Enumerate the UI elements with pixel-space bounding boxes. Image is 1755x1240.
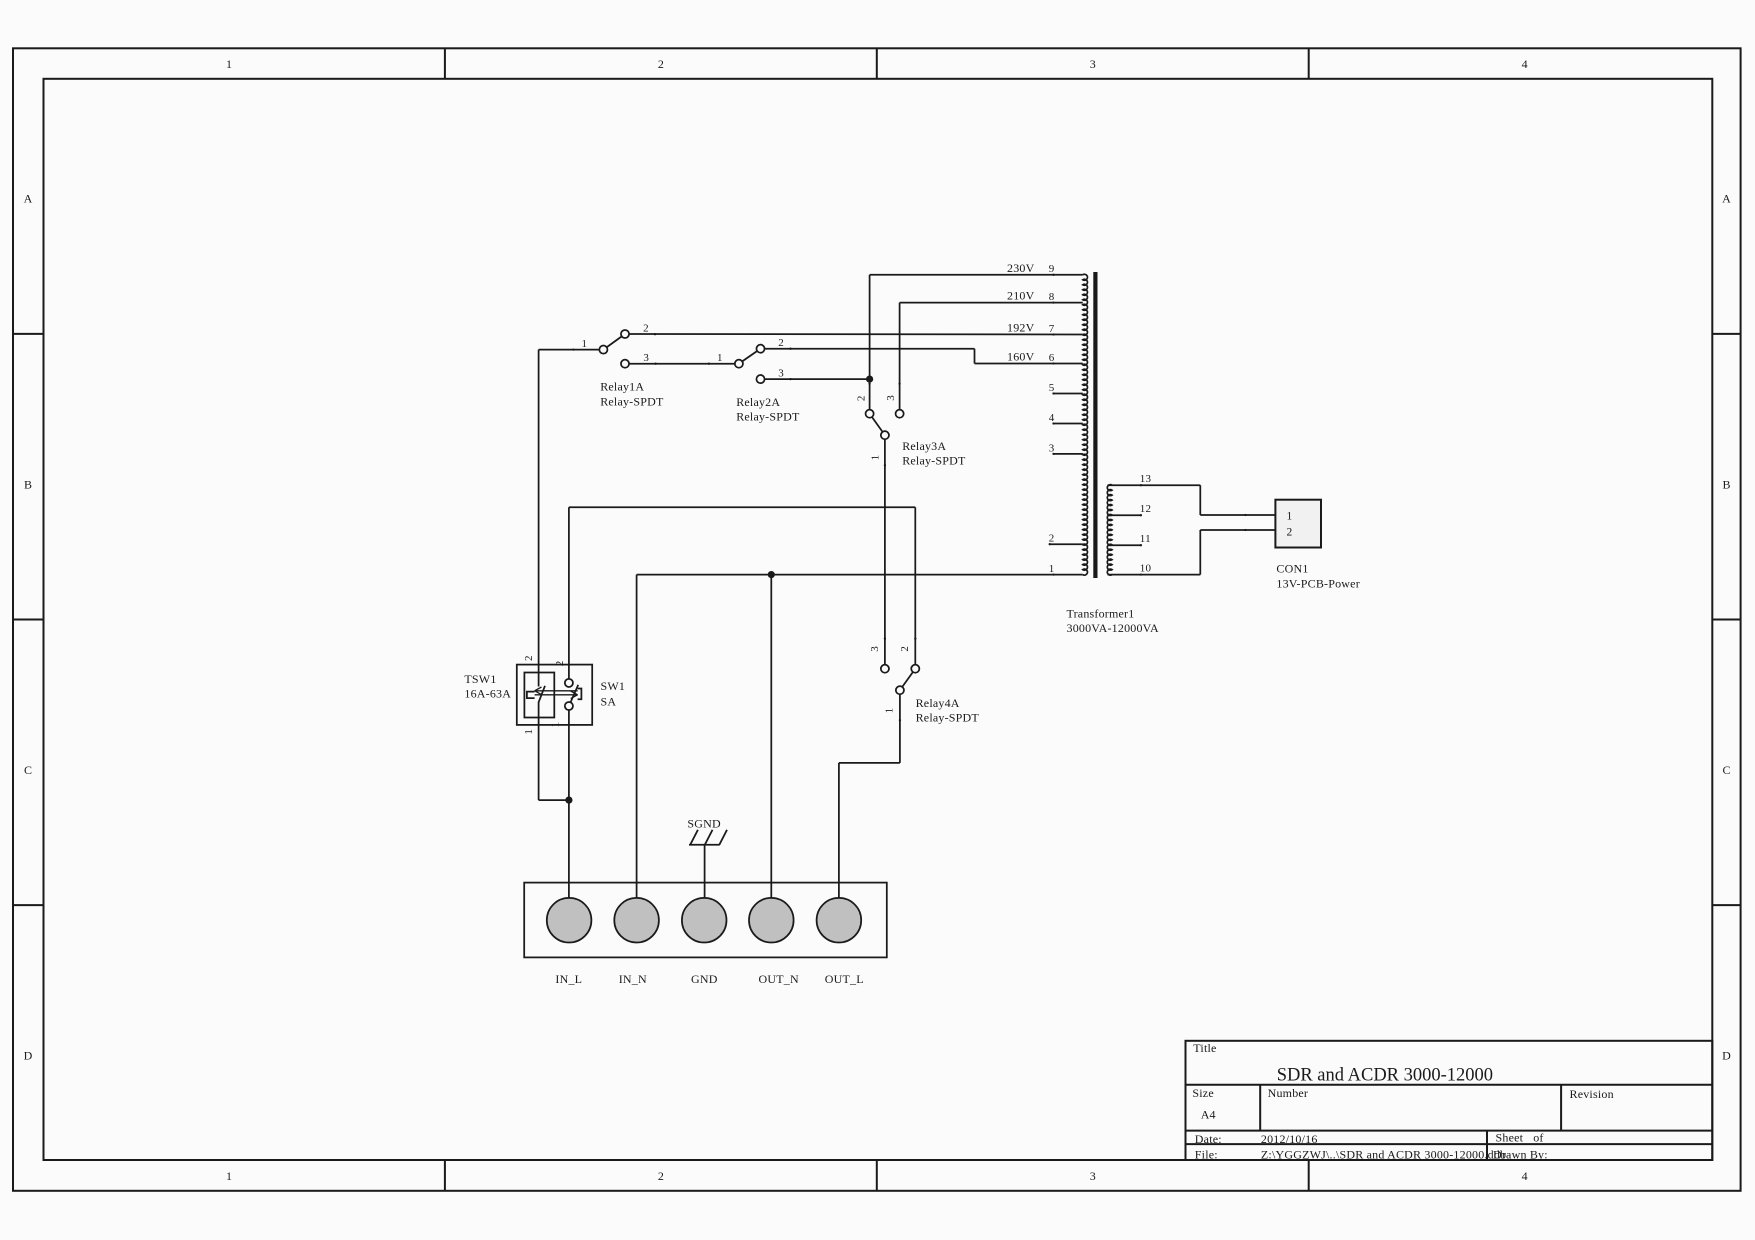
svg-text:Relay-SPDT: Relay-SPDT [916,711,980,725]
svg-text:2: 2 [778,337,784,349]
svg-text:D: D [1722,1049,1731,1063]
svg-text:4: 4 [1522,57,1528,71]
svg-text:OUT_L: OUT_L [825,972,864,986]
svg-text:C: C [24,763,32,777]
svg-text:Sheet: Sheet [1496,1131,1524,1145]
svg-text:3: 3 [869,646,881,652]
svg-text:2: 2 [658,57,664,71]
svg-text:Relay1A: Relay1A [600,380,644,394]
svg-text:1: 1 [226,1169,232,1183]
svg-text:2: 2 [1287,526,1293,538]
svg-text:SW1: SW1 [601,679,626,693]
svg-text:1: 1 [869,455,881,461]
svg-text:SGND: SGND [687,816,721,830]
svg-text:CON1: CON1 [1276,561,1308,575]
svg-text:SA: SA [601,694,617,708]
svg-text:1: 1 [717,352,723,364]
svg-text:D: D [24,1049,33,1063]
svg-text:IN_N: IN_N [619,972,647,986]
svg-text:6: 6 [1049,352,1055,364]
svg-text:7: 7 [1049,323,1055,335]
svg-text:Z:\YGGZWJ\..\SDR and ACDR 3000: Z:\YGGZWJ\..\SDR and ACDR 3000-12000.ddb [1261,1148,1506,1162]
svg-text:OUT_N: OUT_N [759,972,799,986]
svg-text:1: 1 [523,729,535,735]
svg-text:Number: Number [1268,1086,1309,1100]
svg-text:2: 2 [1049,533,1055,545]
svg-text:Revision: Revision [1570,1087,1614,1101]
svg-text:16A-63A: 16A-63A [464,687,511,701]
svg-text:Relay-SPDT: Relay-SPDT [736,410,800,424]
svg-text:Title: Title [1193,1041,1216,1055]
svg-text:3: 3 [1049,442,1055,454]
svg-text:1: 1 [549,722,561,728]
svg-text:2: 2 [554,661,566,667]
svg-text:2: 2 [643,322,649,334]
svg-text:1: 1 [226,57,232,71]
svg-text:A4: A4 [1201,1108,1216,1122]
svg-text:3: 3 [1090,1169,1096,1183]
svg-text:13: 13 [1140,473,1152,485]
svg-text:230V: 230V [1007,261,1035,275]
svg-text:1: 1 [1049,563,1055,575]
svg-text:Size: Size [1192,1086,1213,1100]
svg-text:B: B [24,477,32,491]
svg-text:Relay4A: Relay4A [916,696,960,710]
svg-text:160V: 160V [1007,350,1035,364]
svg-text:TSW1: TSW1 [464,672,496,686]
svg-text:2: 2 [899,646,911,652]
svg-text:B: B [1722,477,1730,491]
svg-text:2: 2 [523,655,535,661]
svg-text:IN_L: IN_L [555,972,582,986]
svg-text:3: 3 [778,368,784,380]
svg-text:4: 4 [1049,412,1055,424]
svg-text:Relay2A: Relay2A [736,395,780,409]
svg-text:A: A [24,192,33,206]
svg-text:Relay-SPDT: Relay-SPDT [902,454,966,468]
svg-text:Transformer1: Transformer1 [1067,607,1135,621]
svg-text:1: 1 [884,708,896,714]
svg-text:Drawn By:: Drawn By: [1493,1148,1548,1162]
svg-text:12: 12 [1140,503,1151,515]
svg-text:2012/10/16: 2012/10/16 [1261,1132,1318,1146]
svg-text:2: 2 [856,396,868,402]
svg-text:C: C [1722,763,1730,777]
svg-text:Date:: Date: [1195,1132,1222,1146]
svg-text:210V: 210V [1007,289,1035,303]
svg-text:3000VA-12000VA: 3000VA-12000VA [1067,621,1160,635]
svg-text:4: 4 [1522,1169,1528,1183]
svg-text:10: 10 [1140,563,1152,575]
svg-text:Relay-SPDT: Relay-SPDT [600,394,664,408]
svg-text:GND: GND [691,972,718,986]
svg-text:3: 3 [885,395,897,401]
svg-text:of: of [1533,1131,1543,1145]
svg-text:3: 3 [643,352,649,364]
svg-text:3: 3 [1090,57,1096,71]
svg-text:11: 11 [1140,533,1151,545]
svg-text:9: 9 [1049,263,1055,275]
svg-text:1: 1 [582,338,588,350]
svg-text:2: 2 [658,1169,664,1183]
svg-text:Relay3A: Relay3A [902,439,946,453]
svg-text:SDR and ACDR 3000-12000: SDR and ACDR 3000-12000 [1277,1066,1493,1086]
svg-text:A: A [1722,192,1731,206]
svg-text:1: 1 [1287,511,1293,523]
svg-text:File:: File: [1195,1148,1218,1162]
svg-text:5: 5 [1049,382,1055,394]
svg-text:192V: 192V [1007,321,1035,335]
svg-text:13V-PCB-Power: 13V-PCB-Power [1276,577,1360,591]
svg-text:8: 8 [1049,291,1055,303]
